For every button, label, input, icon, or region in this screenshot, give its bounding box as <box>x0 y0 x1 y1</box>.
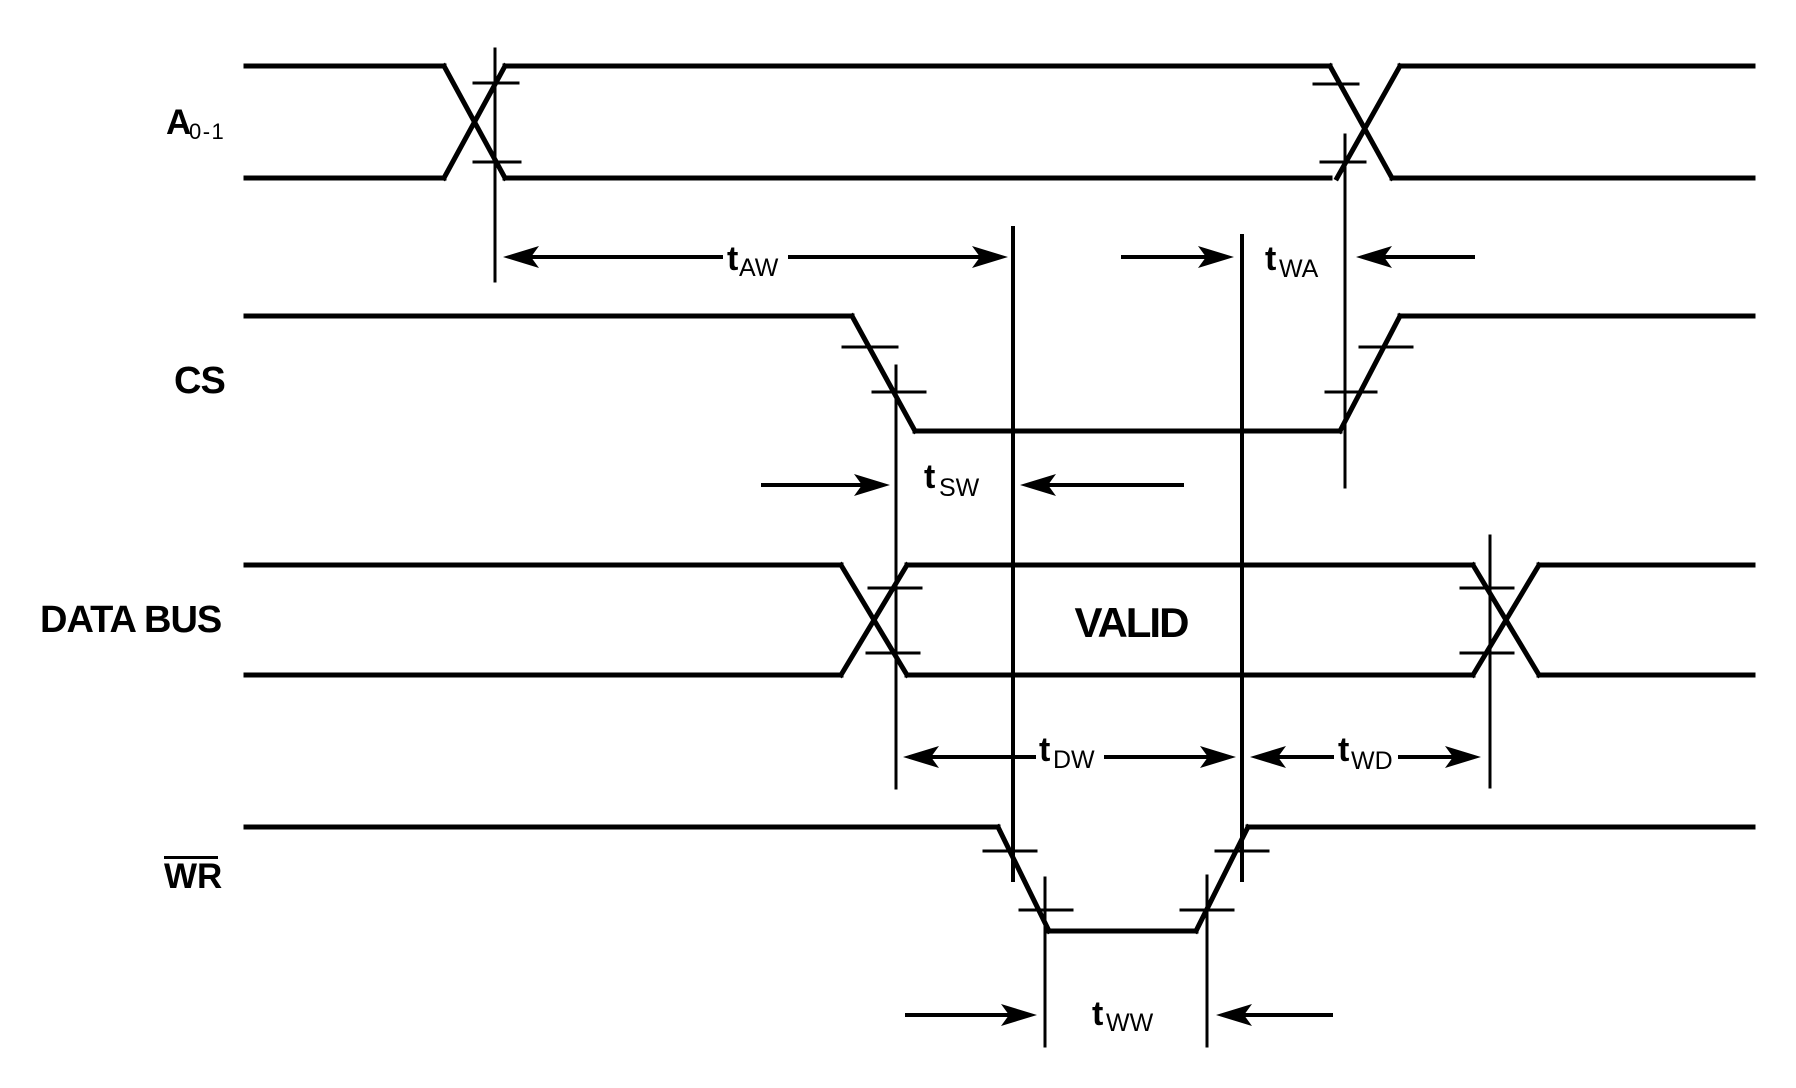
tick DATA crossover 1 upper <box>869 587 921 590</box>
wire DATA top rail right <box>1539 563 1753 568</box>
tick A0-1 crossover 1 upper <box>474 82 518 85</box>
dimension tSW leaving arrow <box>1020 474 1182 496</box>
node label VALID <box>1075 599 1189 646</box>
wire A0-1 bottom rail right <box>1392 176 1753 181</box>
DATA crossover 1 rising edge <box>841 565 907 675</box>
svg-text:tSW: tSW <box>924 458 980 502</box>
wire WR low rail <box>1049 929 1196 934</box>
dimension label tAW <box>727 240 779 282</box>
svg-text:VALID: VALID <box>1075 599 1189 646</box>
svg-text:A0-1: A0-1 <box>166 103 225 144</box>
dimension tWD left arrow <box>1250 746 1332 768</box>
wire A0-1 top rail left <box>246 64 444 69</box>
WR rising edge <box>1196 827 1248 931</box>
wire WR high rail left <box>246 825 998 830</box>
dimension tWW entering arrow <box>907 1004 1037 1026</box>
wire DATA bottom rail right <box>1539 673 1753 678</box>
tick DATA crossover 1 lower <box>867 652 919 655</box>
wire A0-1 top rail right <box>1400 64 1753 69</box>
dimension tAW right arrow <box>790 246 1008 268</box>
tick DATA crossover 2 upper <box>1461 587 1513 590</box>
dimension label tWA <box>1265 240 1319 283</box>
svg-text:CS: CS <box>174 360 225 402</box>
A0-1 crossover 1 rising edge <box>444 66 505 178</box>
wire A0-1 bottom rail left <box>246 176 444 181</box>
marker line at WR low end (x=1207) <box>1206 876 1209 1046</box>
tick CS fall upper <box>843 346 897 349</box>
wire CS high rail right <box>1400 314 1753 319</box>
dimension label tWD <box>1338 731 1393 775</box>
marker line at WR low start (x=1045) <box>1044 878 1047 1046</box>
A0-1 crossover 1 falling edge <box>444 66 505 178</box>
signal label CS <box>174 360 225 402</box>
tick WR rise upper <box>1216 850 1268 853</box>
wire DATA bottom rail valid <box>907 673 1473 678</box>
signal label WR with overline <box>164 856 222 896</box>
marker line at data change (x=1490) <box>1489 536 1492 787</box>
dimension tWW leaving arrow <box>1216 1004 1331 1026</box>
svg-text:tWD: tWD <box>1338 731 1393 775</box>
dimension label tDW <box>1039 731 1095 774</box>
marker line at WR fall (x=1013) <box>1011 228 1015 880</box>
CS rising edge <box>1340 316 1400 431</box>
wire CS low rail <box>915 429 1340 434</box>
wire A0-1 top rail middle <box>505 64 1330 69</box>
WR falling edge <box>998 827 1049 931</box>
dimension tWA leaving arrow <box>1356 246 1473 268</box>
signal label A0-1 <box>166 103 225 144</box>
dimension tSW entering arrow <box>763 474 890 496</box>
wire DATA top rail valid <box>907 563 1473 568</box>
wire CS high rail left <box>246 314 852 319</box>
svg-text:tDW: tDW <box>1039 731 1095 774</box>
marker line at address change 2 (x=1345) <box>1344 135 1347 487</box>
svg-text:tWA: tWA <box>1265 240 1319 283</box>
svg-text:tWW: tWW <box>1092 995 1154 1037</box>
tick CS fall lower <box>873 391 925 394</box>
DATA crossover 1 falling edge <box>841 565 907 675</box>
marker line at CS fall (x=896) <box>895 366 898 788</box>
tick WR fall lower <box>1020 909 1072 912</box>
tick A0-1 crossover 1 lower <box>474 161 520 164</box>
dimension label tWW <box>1092 995 1154 1037</box>
tick A0-1 crossover 2 lower <box>1321 161 1365 164</box>
tick CS rise lower <box>1326 391 1376 394</box>
dimension tAW left arrow <box>503 246 721 268</box>
wire WR high rail right <box>1248 825 1753 830</box>
CS falling edge <box>852 316 915 431</box>
tick WR fall upper <box>984 850 1036 853</box>
tick WR rise lower <box>1181 909 1233 912</box>
wire A0-1 bottom rail middle <box>505 176 1330 181</box>
dimension tDW right arrow <box>1106 746 1236 768</box>
DATA crossover 2 falling edge <box>1473 565 1539 675</box>
marker line at WR rise (x=1242) <box>1240 236 1244 880</box>
tick CS rise upper <box>1360 346 1412 349</box>
dimension label tSW <box>924 458 980 502</box>
wire DATA bottom rail left <box>246 673 841 678</box>
dimension tWA entering arrow <box>1123 246 1234 268</box>
dimension tDW left arrow <box>903 746 1034 768</box>
tick DATA crossover 2 lower <box>1461 652 1513 655</box>
DATA crossover 2 rising edge <box>1473 565 1539 675</box>
signal label DATA BUS <box>40 599 221 641</box>
svg-text:WR: WR <box>164 857 222 896</box>
svg-text:DATA BUS: DATA BUS <box>40 599 221 641</box>
tick A0-1 crossover 2 upper <box>1314 83 1358 86</box>
wire DATA top rail left <box>246 563 841 568</box>
A0-1 crossover 2 rising edge <box>1337 66 1400 178</box>
marker line at address change (x=495) <box>494 49 497 281</box>
A0-1 crossover 2 falling edge <box>1330 66 1392 178</box>
svg-text:tAW: tAW <box>727 240 779 282</box>
dimension tWD right arrow <box>1400 746 1481 768</box>
